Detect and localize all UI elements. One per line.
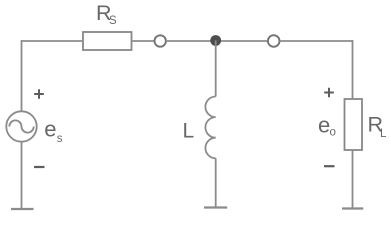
plus sign of source es: [34, 89, 44, 99]
svg-text:e: e: [318, 113, 330, 138]
plus sign of output eo: [324, 88, 334, 98]
svg-text:S: S: [109, 15, 117, 27]
junction dot node: [210, 35, 221, 46]
wire right vertical down to resistor RL: [352, 40, 354, 99]
resistor RS body: [83, 32, 132, 50]
wire from resistor RS to left node circle: [132, 40, 155, 42]
wire from left node circle to junction: [166, 40, 216, 42]
wire left vertical from top corner down to source top: [21, 40, 23, 111]
node circle left (open terminal): [155, 35, 166, 46]
inductor L coil (three arcs): [205, 97, 215, 159]
svg-text:L: L: [183, 119, 195, 142]
source es circle: [6, 111, 36, 141]
node circle right (open terminal): [268, 35, 280, 47]
wire middle vertical from junction down to inductor: [215, 41, 217, 97]
svg-text:e: e: [44, 116, 56, 141]
svg-text:o: o: [330, 127, 336, 139]
minus sign of output eo: [324, 165, 335, 167]
ground right: [342, 207, 363, 209]
minus sign of source es: [34, 166, 45, 168]
wire from right node circle to top-right corner: [280, 40, 353, 42]
wire below source es to left ground: [21, 142, 23, 209]
wire from junction to right node circle: [216, 40, 268, 42]
wire below inductor to middle ground: [215, 158, 217, 207]
svg-text:L: L: [380, 128, 387, 140]
wire below resistor RL to right ground: [352, 150, 354, 209]
svg-text:s: s: [57, 133, 63, 145]
source es sine wave: [9, 120, 33, 132]
wire top-left horizontal from source branch to resistor RS: [22, 40, 84, 42]
ground left: [11, 208, 34, 210]
resistor RL body: [345, 99, 363, 150]
ground middle: [204, 206, 227, 208]
